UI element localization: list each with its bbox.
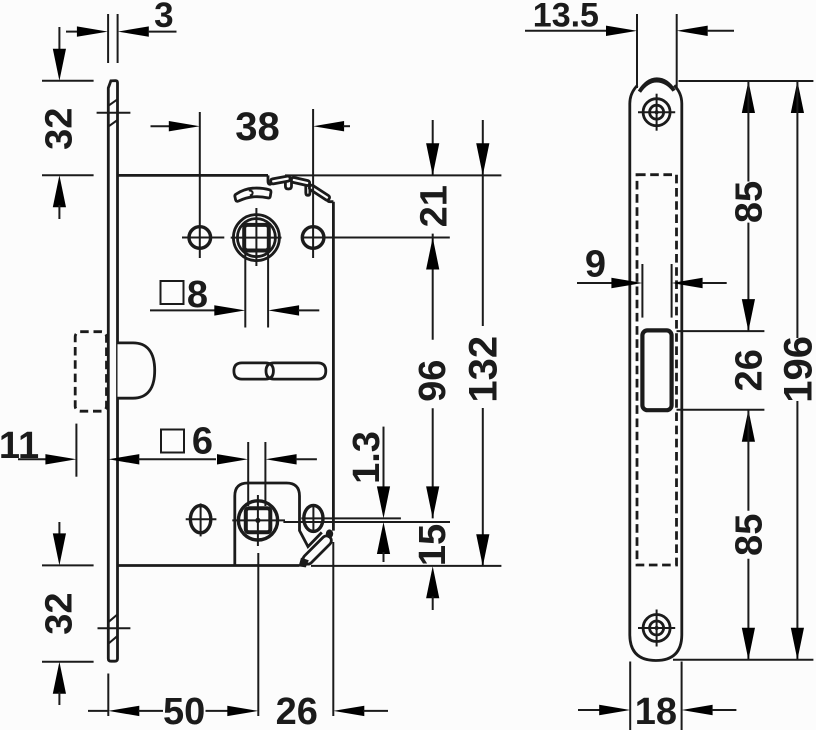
upper follower (8 mm spindle hub): [231, 208, 282, 266]
svg-text:9: 9: [585, 244, 606, 286]
svg-text:11: 11: [0, 425, 39, 467]
dimension 26 right: [729, 349, 771, 442]
svg-text:13.5: 13.5: [533, 0, 599, 35]
dimension square8 label: [161, 274, 209, 316]
svg-text:38: 38: [235, 105, 280, 149]
top screw hole: [638, 94, 675, 131]
svg-text:1.3: 1.3: [346, 431, 388, 484]
faceplate break mark bottom: [98, 615, 131, 644]
dimension 13.5: [525, 0, 734, 88]
elongated slot right: [266, 363, 326, 379]
svg-text:26: 26: [729, 349, 771, 391]
dimension 9: [577, 244, 727, 318]
latch bolt extended position (dashed): [75, 332, 106, 412]
svg-text:85: 85: [728, 514, 770, 556]
dimension 6: [217, 442, 317, 506]
stamped tab strip B: [291, 177, 310, 186]
lock case behind (dashed): [637, 175, 677, 565]
small hook mark inside band: [249, 190, 253, 195]
svg-text:3: 3: [154, 0, 173, 35]
extension lines right view: [679, 80, 814, 82]
dimension square6 label: [161, 421, 213, 463]
stamped tab strip C: [308, 184, 330, 201]
dimension 196: [776, 81, 816, 660]
upper right guide hole: [301, 109, 450, 258]
svg-text:21: 21: [413, 185, 455, 227]
svg-text:6: 6: [192, 421, 213, 463]
svg-text:32: 32: [38, 108, 80, 150]
dimension 96: [412, 234, 454, 519]
elongated slot left: [234, 363, 274, 379]
bottom edge extension to the right: [311, 565, 501, 567]
detached curved spring band: [235, 188, 271, 201]
dimension 18: [578, 662, 736, 730]
svg-text:96: 96: [412, 360, 454, 402]
top extension line (21/132 datum): [285, 174, 501, 176]
dimension 32 bottom: [38, 522, 93, 705]
top edge crescent: [638, 77, 676, 92]
svg-text:15: 15: [412, 524, 454, 566]
stamped tab strip A: [270, 176, 290, 184]
dimension 11: [0, 424, 216, 477]
1.3 offset lines: [301, 517, 401, 519]
bottom screw hole: [638, 610, 675, 647]
svg-text:132: 132: [462, 336, 506, 403]
faceplate edge (side view): [108, 81, 117, 662]
dimension 50 and 26 bottom: [88, 542, 388, 730]
dimension 85 bottom: [728, 410, 770, 660]
case right edge: [332, 202, 335, 531]
faceplate outline (stadium): [630, 85, 682, 660]
auxiliary latch trigger bar (diagonal): [299, 529, 334, 567]
svg-text:32: 32: [38, 592, 80, 634]
upper left guide hole: [182, 112, 224, 258]
lower follower pocket: [235, 483, 322, 567]
lower left oval hole: [186, 503, 217, 536]
svg-text:26: 26: [276, 691, 318, 730]
dimension 32 top: [38, 27, 93, 219]
lower follower (6 mm spindle hub): [232, 495, 285, 546]
dimension 38: [151, 105, 351, 149]
lower right oval hole: [304, 504, 323, 533]
svg-text:85: 85: [728, 181, 770, 223]
dimension 15: [412, 524, 454, 610]
dimension 3 (faceplate thickness): [66, 0, 177, 63]
dimension 21: [413, 120, 455, 227]
latch opening: [642, 330, 671, 410]
lock case top edge: [118, 174, 269, 177]
latch bolt (solid, side): [118, 343, 155, 398]
svg-text:18: 18: [635, 691, 677, 730]
jagged stamped top-right edge: [268, 175, 333, 201]
faceplate break mark top: [97, 99, 131, 126]
dimension 85 top: [728, 81, 770, 331]
dimension 8: [150, 305, 319, 315]
dimension 132: [462, 120, 506, 566]
case bottom edge: [118, 564, 300, 567]
follower square side extension lines: [244, 251, 246, 328]
dimension 1.3: [346, 427, 390, 562]
svg-text:196: 196: [776, 336, 816, 403]
svg-text:50: 50: [163, 691, 205, 730]
